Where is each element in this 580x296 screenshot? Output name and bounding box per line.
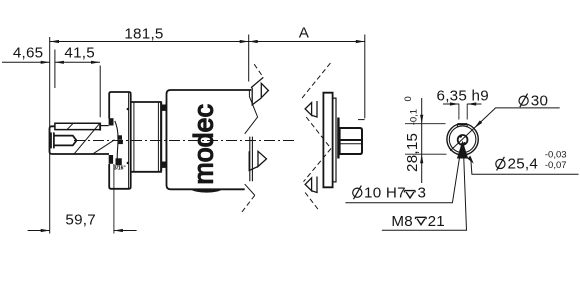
dimension 41,5 left arrowhead bbox=[55, 61, 64, 64]
keyway notch right side bbox=[466, 124, 468, 127]
section diagonal D1 bbox=[74, 123, 100, 154]
tapped hole entry bore bbox=[51, 132, 54, 148]
dimension 41,5 right arrowhead bbox=[91, 61, 100, 64]
middle view dashed mid upper bbox=[306, 117, 331, 149]
extension line keyway start bbox=[54, 50, 56, 89]
dimension 6,35 left line bbox=[443, 103, 459, 105]
svg-text:3: 3 bbox=[418, 184, 427, 201]
dimension 181,5 line bbox=[50, 41, 249, 43]
label d10 leader bbox=[345, 143, 461, 203]
svg-text:3/16": 3/16" bbox=[114, 166, 127, 172]
break zigzag upper bbox=[245, 90, 258, 134]
dimension 4,65 line bbox=[2, 61, 50, 63]
middle view dashed bottom bbox=[305, 193, 320, 212]
extension line flange mounting face bbox=[113, 164, 115, 234]
middle view flag bottom bar bbox=[312, 177, 317, 193]
break dashed diagonal bottom bbox=[242, 195, 255, 212]
motor body bottom dark arc bbox=[190, 189, 224, 193]
dimension 59,7 text bbox=[65, 212, 96, 229]
right view inner circle d25.4 bbox=[449, 126, 476, 153]
dimension A line bbox=[249, 41, 365, 43]
keyway flat chord bbox=[457, 123, 467, 125]
dimension 59,7 right arrowhead bbox=[114, 229, 123, 232]
dimension 181,5 text bbox=[124, 26, 163, 43]
section diagonal D2 bbox=[93, 140, 115, 154]
label M8 depth 21 text bbox=[391, 213, 413, 230]
tapped hole M8 body bbox=[54, 136, 77, 146]
seal blob bottom left bbox=[109, 155, 113, 164]
depth symbol for d10 bbox=[404, 191, 415, 198]
svg-text:30: 30 bbox=[531, 92, 548, 109]
modec logo bbox=[189, 104, 219, 185]
label d25,4 arrowhead bbox=[468, 156, 474, 164]
dimension A right arrowhead bbox=[356, 40, 365, 43]
dimension 59,7 left arrowhead bbox=[41, 229, 50, 232]
dimension 181,5 left arrowhead bbox=[50, 40, 59, 43]
extension line keyway end bbox=[99, 66, 101, 118]
seal blob bottom right bbox=[116, 158, 122, 165]
break vertical mid bbox=[250, 137, 253, 182]
dimension 6,35 right line bbox=[467, 103, 481, 105]
svg-text:10 H7: 10 H7 bbox=[364, 184, 406, 201]
label M8 depth value bbox=[428, 213, 445, 230]
keyway strip bbox=[55, 123, 100, 129]
flange inner right line bbox=[128, 92, 130, 188]
keyway strip left chamfer bbox=[67, 123, 73, 129]
dimension 28,15 text bbox=[404, 133, 421, 172]
dimension 4,65 text bbox=[13, 45, 44, 62]
svg-text:21: 21 bbox=[428, 213, 445, 230]
svg-text:A: A bbox=[299, 25, 310, 42]
break flag bottom left bar bbox=[249, 151, 258, 170]
connector top step line bbox=[358, 119, 365, 121]
dimension 59,7 left line bbox=[28, 230, 50, 232]
shaft circle d10 bbox=[458, 135, 468, 145]
svg-text:41,5: 41,5 bbox=[64, 45, 95, 62]
shaft body bbox=[50, 126, 110, 154]
seal blob center upper bbox=[117, 135, 122, 139]
label d30 text bbox=[519, 92, 548, 109]
svg-text:4,65: 4,65 bbox=[13, 45, 44, 62]
extension line keyway right bbox=[466, 104, 468, 120]
svg-text:28,15: 28,15 bbox=[404, 133, 421, 172]
keyway strip end dark mark bbox=[99, 123, 101, 131]
tolerance 0/-0,1 bbox=[403, 96, 419, 125]
keyway notch mask bbox=[457, 120, 468, 125]
dimension 6,35 h9 text bbox=[437, 88, 489, 105]
extension line right of 181,5 bbox=[248, 35, 250, 82]
break zigzag lower bbox=[245, 184, 255, 195]
label M8 leader bbox=[382, 143, 467, 230]
label d30 arrowhead bbox=[474, 120, 482, 128]
cylinder inner right line bbox=[157, 102, 159, 172]
M8 thread arcs bbox=[460, 136, 465, 143]
extension line shaft front face (shared 4,65 / 59,7) bbox=[49, 37, 51, 234]
dimension 28,15 bottom arrowhead bbox=[420, 154, 423, 163]
dimension 41,5 text bbox=[64, 45, 95, 62]
dimension 28,15 line bbox=[421, 98, 423, 183]
extension line keyway left bbox=[458, 104, 460, 120]
label d10 depth value bbox=[418, 184, 427, 201]
svg-text:-0,03: -0,03 bbox=[545, 150, 567, 161]
motor body bbox=[167, 90, 252, 189]
hub silhouette curve bbox=[115, 121, 118, 161]
dimension 59,7 right line bbox=[114, 230, 137, 232]
svg-text:6,35 h9: 6,35 h9 bbox=[437, 88, 489, 105]
connector groove lines bbox=[340, 139, 362, 141]
dimension A text bbox=[299, 25, 310, 42]
cylinder inner left line bbox=[133, 102, 135, 172]
svg-text:modec: modec bbox=[189, 104, 219, 185]
dimension 6,35 left arrowhead bbox=[450, 102, 459, 105]
converged arrowheads wedge bbox=[457, 141, 468, 159]
label d25,4 leader bbox=[471, 158, 579, 175]
hub top dark ring section bbox=[109, 118, 114, 125]
gearbox cylinder bbox=[131, 102, 161, 172]
extension line keyway flat level bbox=[405, 123, 446, 125]
clamp band tick bottom bbox=[161, 162, 166, 168]
end cap plate 2 bbox=[333, 98, 336, 182]
svg-text:-0,07: -0,07 bbox=[545, 160, 567, 171]
middle view flag bottom bbox=[305, 178, 312, 191]
connector base dark bar bbox=[337, 118, 339, 159]
end cap plate 1 bbox=[323, 93, 332, 188]
connector groove thin line bbox=[340, 143, 362, 145]
middle view flag top bbox=[305, 103, 312, 116]
break dashed diagonal top bbox=[254, 64, 263, 77]
label d25,4 text bbox=[0, 0, 1, 1]
middle view flag top bar bbox=[312, 101, 317, 117]
svg-text:59,7: 59,7 bbox=[65, 212, 96, 229]
svg-text:-0,1: -0,1 bbox=[408, 109, 419, 125]
label d30 leader bbox=[450, 108, 560, 151]
right view outer circle d30 bbox=[447, 124, 478, 155]
break flag bottom triangle bbox=[258, 151, 267, 166]
svg-text:M8: M8 bbox=[391, 213, 413, 230]
svg-text:0: 0 bbox=[403, 96, 414, 101]
dimension 28,15 top arrowhead bbox=[420, 115, 423, 124]
middle view dashed top bbox=[302, 63, 330, 98]
break flag top triangle bbox=[261, 83, 268, 97]
svg-text:25,4: 25,4 bbox=[508, 156, 539, 173]
flange dot lower bbox=[127, 162, 129, 164]
depth symbol for M8 bbox=[415, 217, 426, 224]
middle view dashed mid lower bbox=[304, 149, 332, 182]
svg-text:181,5: 181,5 bbox=[124, 26, 163, 43]
label 3/16" bbox=[114, 166, 127, 172]
break flag top left bar bbox=[252, 88, 261, 105]
dimension 41,5 line bbox=[55, 61, 100, 63]
seal blob center lower bbox=[118, 140, 123, 144]
dimension 4,65 arrowhead bbox=[41, 61, 50, 64]
dimension 6,35 right arrowhead bbox=[467, 102, 476, 105]
flange plate bbox=[109, 92, 131, 189]
dimension A left arrowhead bbox=[249, 40, 258, 43]
centerline left view bbox=[74, 140, 296, 142]
connector body bbox=[340, 128, 362, 154]
extension line right of A bbox=[364, 35, 366, 119]
extension line circle bottom level bbox=[405, 153, 447, 155]
label d10 H7 depth 3 text bbox=[353, 184, 406, 201]
flange dot upper bbox=[127, 108, 129, 110]
break flag top slant bbox=[251, 77, 263, 87]
dimension 181,5 right arrowhead bbox=[240, 40, 249, 43]
hub top edge bbox=[101, 125, 109, 127]
keyway notch left side bbox=[456, 124, 458, 127]
body clamp band bbox=[162, 102, 167, 171]
clamp band tick top bbox=[161, 105, 166, 111]
